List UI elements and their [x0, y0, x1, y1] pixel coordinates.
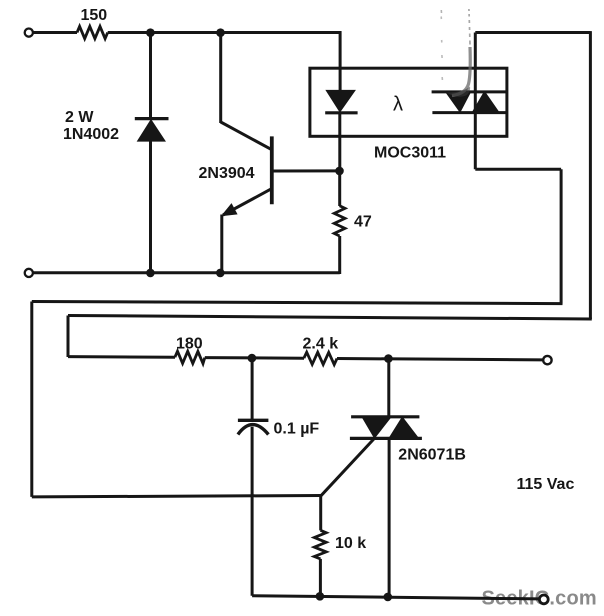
wire right outer vertical [589, 31, 592, 319]
wire capacitor top [251, 358, 254, 420]
svg-text:0.1 µF: 0.1 µF [274, 420, 320, 437]
svg-text:180: 180 [176, 336, 203, 353]
wire triac Q2 gate slant [321, 438, 375, 495]
transistor Q1 emitter slant [223, 189, 272, 215]
resistor R1 150 zigzag [77, 26, 108, 38]
wire R2 to bottom rail [338, 236, 341, 274]
detector triac of U1 right triangle [473, 92, 499, 113]
node junction dot base/LED/47 [335, 167, 344, 176]
wire bottom rail of input section [33, 271, 339, 274]
wire diode branch upper [149, 33, 152, 119]
wire LED anode drop [339, 31, 342, 91]
wire bottom rail [252, 596, 539, 599]
wire row between R3 and R4 [205, 356, 304, 360]
triac Q2 right triangle [389, 418, 418, 439]
transistor Q1 collector slant [221, 122, 272, 150]
terminal bottom right [539, 595, 548, 604]
wire mid horizontal (y303) [32, 302, 563, 304]
svg-text:115 Vac: 115 Vac [517, 476, 575, 493]
wire capacitor bottom long drop [251, 427, 254, 596]
svg-text:2.4 k: 2.4 k [303, 335, 339, 352]
svg-text:47: 47 [354, 214, 372, 231]
wire transistor collector vertical [219, 33, 222, 124]
transistor Q1 base bar [270, 136, 274, 204]
node junction dot bottom rail / MT1 [384, 593, 393, 602]
node junction dot row / capacitor [248, 354, 257, 363]
detector triac of U1 bottom bar [432, 111, 505, 114]
node junction dot row / triac MT2 [384, 354, 393, 363]
resistor R2 47 zigzag [334, 206, 345, 236]
detector triac of U1 top bar [432, 90, 506, 93]
diode D1 1N4002 triangle [138, 120, 165, 141]
capacitor C1 curved plate [238, 425, 269, 435]
wire row right segment to terminal [337, 359, 543, 360]
node junction dot bottom rail / diode [146, 269, 155, 278]
svg-text:2N3904: 2N3904 [199, 165, 255, 182]
triac Q2 2N6071B bottom bar [350, 437, 422, 440]
wire top rail right segment [475, 31, 590, 34]
detector triac of U1 left triangle [446, 92, 470, 112]
node junction dot top rail / diode [146, 28, 155, 37]
wire triac route horizontal below box [475, 168, 561, 171]
wire lower horizontal to row (y317) [68, 316, 592, 320]
opto-isolator U1 MOC3011 package box [310, 68, 507, 136]
resistor R4 2.4k zigzag [304, 352, 337, 364]
terminal row right [543, 356, 551, 364]
wire top rail left of R1 [33, 31, 77, 34]
svg-text:150: 150 [81, 7, 108, 24]
wire node to R2 [338, 171, 341, 206]
wire left drop to row [67, 316, 70, 358]
terminal bottom-left input [25, 269, 33, 277]
triac Q2 left triangle [362, 417, 391, 438]
resistor R5 10k zigzag [314, 530, 326, 559]
diode D1 1N4002 cathode bar [135, 117, 169, 120]
svg-text:MOC3011: MOC3011 [374, 144, 446, 161]
transistor Q1 emitter arrowhead [223, 205, 237, 216]
wire R5 to bottom rail [319, 559, 322, 596]
scan smudge artifact dotted streak left [440, 10, 442, 13]
scan smudge artifact dots [441, 17, 442, 81]
wire triac route vertical [560, 169, 563, 303]
scan smudge artifact curved tail [452, 47, 470, 96]
scan smudge artifact dark blob [447, 87, 470, 97]
wire LED cathode down to node [338, 113, 341, 171]
wire gate line horizontal [32, 496, 321, 497]
wire detector triac vertical through box [474, 33, 477, 170]
scan smudge artifact streak right dots [469, 9, 470, 45]
wire emitter vertical [220, 215, 223, 273]
wire diode branch lower [149, 141, 152, 273]
triac Q2 2N6071B top bar [351, 415, 419, 418]
node junction dot top rail / transistor collector [216, 28, 225, 37]
LED of U1 cathode bar [325, 111, 357, 114]
node junction dot bottom rail / emitter [216, 269, 225, 278]
terminal top-left input [25, 28, 33, 36]
wire base to LED node [272, 169, 340, 172]
svg-text:1N4002: 1N4002 [63, 126, 119, 143]
svg-text:λ: λ [393, 94, 403, 116]
svg-text:2 W: 2 W [65, 109, 94, 126]
wire triac Q2 MT1 vertical [388, 438, 391, 597]
resistor R3 180 zigzag [175, 351, 205, 363]
wire row left segment [68, 355, 175, 359]
svg-text:10 k: 10 k [335, 535, 366, 552]
capacitor C1 top plate [238, 419, 269, 422]
node junction dot bottom rail / R5 [316, 592, 325, 601]
wire top rail R1 to LED corner [108, 31, 342, 34]
LED of U1 triangle [327, 91, 355, 112]
wire gate node down to R5 [319, 496, 322, 531]
wire left outer vertical [30, 302, 33, 497]
wire triac Q2 MT2 vertical [387, 359, 390, 417]
svg-text:2N6071B: 2N6071B [398, 446, 466, 463]
